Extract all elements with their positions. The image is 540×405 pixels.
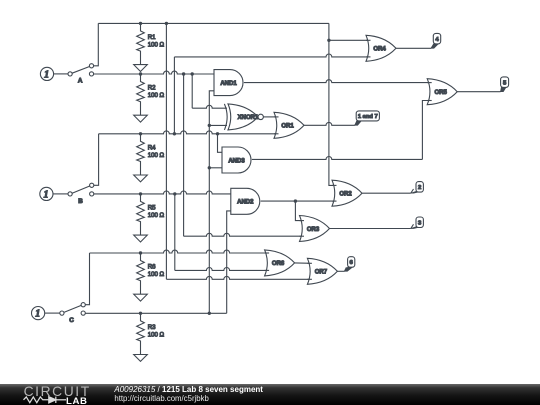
wire AND2 output xyxy=(261,200,337,202)
wire XNOR1 output xyxy=(263,116,278,118)
svg-text:OR1: OR1 xyxy=(281,124,294,130)
resistor R5 xyxy=(137,194,165,235)
logic-1 source SA xyxy=(40,67,68,80)
ground below R2 xyxy=(134,115,148,122)
wire OR1 input stubs xyxy=(274,117,279,134)
wire XNOR1 input 1 feed xyxy=(192,105,227,108)
svg-text:R1: R1 xyxy=(148,34,156,41)
resistor R1 xyxy=(137,23,165,64)
wire OR4 input stubs xyxy=(366,40,371,57)
svg-text:100 Ω: 100 Ω xyxy=(148,92,165,99)
wire B-up rail xyxy=(99,131,279,134)
svg-text:R2: R2 xyxy=(148,85,156,92)
switch C xyxy=(60,303,85,325)
wire OR6 output xyxy=(295,262,312,264)
wire AND3 output xyxy=(252,157,423,160)
and-gate AND2 xyxy=(231,188,260,214)
svg-text:100 Ω: 100 Ω xyxy=(148,271,165,278)
wire switch C riser xyxy=(85,253,89,305)
or-gate OR4 xyxy=(366,35,396,61)
switch B xyxy=(68,183,94,205)
wire bus A-up vertical to OR7 xyxy=(165,23,167,279)
svg-text:1: 1 xyxy=(35,309,40,320)
wire OR3 output xyxy=(330,228,411,230)
svg-text:LAB: LAB xyxy=(66,396,88,405)
and-gate AND3 xyxy=(222,147,251,173)
resistor R6 xyxy=(137,253,165,294)
junction AND2 out xyxy=(294,199,297,202)
wire OR2 output xyxy=(362,192,411,194)
node flag 5 xyxy=(501,77,509,92)
svg-text:100 Ω: 100 Ω xyxy=(148,332,165,339)
wire A to XNOR1 vertical xyxy=(191,74,193,108)
svg-text:R6: R6 xyxy=(148,264,156,271)
junction C row bus xyxy=(208,312,211,315)
wire C-up rail xyxy=(90,250,270,253)
wire OR3 input stubs xyxy=(300,221,305,237)
wire bus OR4 input 2 feed xyxy=(173,57,175,134)
wire bus C vertical 1 xyxy=(209,91,214,313)
junction top rail R1 xyxy=(139,22,142,25)
wire AND3 input 2 feed xyxy=(209,167,222,169)
wire OR7 input 2 feed xyxy=(166,276,312,279)
svg-text:AND1: AND1 xyxy=(220,81,237,87)
svg-text:B: B xyxy=(78,198,83,205)
logic-1 source SC xyxy=(31,307,59,320)
wire XNOR1 input 2 feed xyxy=(209,124,227,126)
node flag 1 and 7 xyxy=(355,111,380,125)
svg-text:A: A xyxy=(78,77,83,84)
wire switch B riser xyxy=(94,134,99,186)
logo resistor-diode art xyxy=(24,397,67,403)
node flag 3 xyxy=(411,217,424,229)
svg-text:OR7: OR7 xyxy=(315,270,328,276)
svg-text:100 Ω: 100 Ω xyxy=(148,212,165,219)
wire OR5 input stubs xyxy=(427,83,432,101)
wire AND2 out to OR3 xyxy=(295,201,304,221)
svg-text:XNOR1: XNOR1 xyxy=(238,115,259,121)
ground below R5 xyxy=(134,235,148,242)
wire bus A vertical xyxy=(183,74,185,236)
wire OR7 output xyxy=(337,270,344,272)
or-gate OR3 xyxy=(300,216,330,242)
resistor R2 xyxy=(137,74,165,115)
xnor-gate XNOR1 xyxy=(224,104,263,130)
junction XNOR1 in2 xyxy=(208,124,211,127)
wire OR4 output xyxy=(396,47,431,49)
wire OR1 output xyxy=(304,122,355,125)
junction top rail bus xyxy=(165,22,168,25)
or-gate OR5 xyxy=(427,79,457,105)
wire OR6 input stubs xyxy=(265,253,270,270)
node flag 2 xyxy=(411,182,424,194)
junction AND3 in2 xyxy=(208,166,211,169)
wire AND1 output xyxy=(244,80,432,83)
ground below R1 xyxy=(134,65,148,72)
svg-text:OR6: OR6 xyxy=(272,261,285,267)
svg-text:AND3: AND3 xyxy=(228,158,245,164)
wire OR7 input stubs xyxy=(307,263,312,279)
svg-text:AND2: AND2 xyxy=(237,200,254,206)
wire A row xyxy=(94,71,214,74)
svg-text:OR2: OR2 xyxy=(339,192,352,198)
junction C-up R6 xyxy=(139,251,142,254)
svg-text:OR4: OR4 xyxy=(373,47,386,53)
junction B-up AND3 tap xyxy=(216,132,219,135)
svg-text:R3: R3 xyxy=(148,324,156,331)
switch A xyxy=(68,64,94,85)
junction B-up R4 xyxy=(139,132,142,135)
logic-1 source SB xyxy=(40,187,68,200)
svg-text:1: 1 xyxy=(44,190,49,201)
and-gate AND1 xyxy=(214,70,243,96)
ground below R6 xyxy=(134,294,148,301)
junction A row R2 xyxy=(139,72,142,75)
or-gate OR2 xyxy=(332,180,362,206)
resistor R4 xyxy=(137,134,165,175)
or-gate OR6 xyxy=(265,250,295,276)
wire OR4 input 2 horizontal xyxy=(174,54,370,57)
svg-text:OR3: OR3 xyxy=(307,227,320,233)
wire bus C vertical 2 xyxy=(227,211,231,313)
junction A row bus1 xyxy=(182,72,185,75)
wire C row xyxy=(85,312,226,314)
wire OR3 input 2 feed xyxy=(184,233,304,236)
wire top rail net A-up xyxy=(98,22,329,24)
wire OR4 input 1 feed xyxy=(329,39,371,41)
svg-text:1 and 7: 1 and 7 xyxy=(358,114,378,120)
wire switch A riser xyxy=(94,23,99,65)
wire AND3 input 1 feed xyxy=(218,134,223,153)
or-gate OR1 xyxy=(274,112,304,138)
svg-text:A00926315 / 1215 Lab 8 seven s: A00926315 / 1215 Lab 8 seven segment xyxy=(113,385,263,394)
node flag 6 xyxy=(345,257,355,272)
wire OR6 input 2 feed xyxy=(175,268,269,271)
node flag 4 xyxy=(431,33,441,48)
junction OR4 in1 xyxy=(327,39,330,42)
wire bus B vertical xyxy=(174,194,176,271)
wire A-up right bus xyxy=(329,23,337,185)
junction B row bus xyxy=(173,192,176,195)
CircuitLab logo xyxy=(24,384,91,405)
ground below R3 xyxy=(134,355,148,362)
svg-text:R5: R5 xyxy=(148,204,156,211)
wire OR2 input stubs xyxy=(332,185,337,201)
resistor R3 xyxy=(137,313,165,354)
svg-text:C: C xyxy=(69,317,74,324)
footer bar xyxy=(0,384,540,405)
svg-text:http://circuitlab.com/c5rjbkb: http://circuitlab.com/c5rjbkb xyxy=(114,394,209,403)
junction B-up OR4 bus xyxy=(173,132,176,135)
junction C row R3 xyxy=(139,312,142,315)
svg-text:100 Ω: 100 Ω xyxy=(148,152,165,159)
junction B row R5 xyxy=(139,192,142,195)
junction A row bus2 xyxy=(191,72,194,75)
wire OR5 input 2 riser xyxy=(422,101,431,160)
or-gate OR7 xyxy=(307,258,337,284)
ground below R4 xyxy=(134,175,148,182)
svg-text:R4: R4 xyxy=(148,144,156,151)
svg-text:100 Ω: 100 Ω xyxy=(148,42,165,49)
footer title text xyxy=(113,385,263,403)
wire OR5 output xyxy=(457,91,500,93)
svg-text:OR5: OR5 xyxy=(435,90,448,96)
wire B row xyxy=(94,191,231,194)
svg-text:1: 1 xyxy=(44,70,49,81)
